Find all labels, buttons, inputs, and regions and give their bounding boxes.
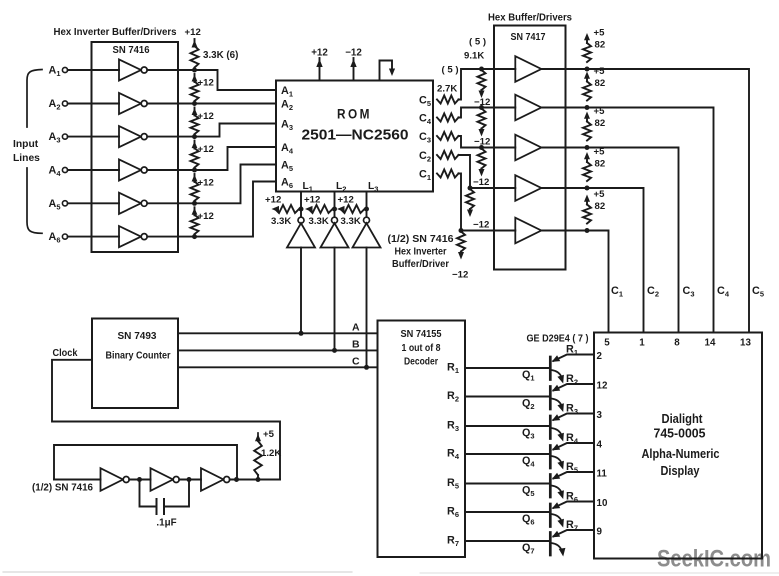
svg-text:B: B [352,338,360,350]
svg-text:C5: C5 [752,285,764,299]
inverter U3c [201,468,230,491]
svg-text:Q7: Q7 [522,542,535,556]
resistor 1.2K [254,433,262,480]
svg-text:9.1K: 9.1K [464,51,484,62]
svg-text:R7: R7 [566,519,578,533]
resistor 9.1K pull-down 5 [457,228,465,260]
wire base R6 from decoder [465,511,550,513]
wire buffer 2 output [541,107,587,109]
svg-text:C3: C3 [419,131,431,145]
inverter L3 (1/2 SN7416) [353,217,381,247]
wire base R1 from decoder [465,367,550,369]
svg-text:Binary Counter: Binary Counter [106,351,171,362]
svg-text:Lines: Lines [13,153,40,164]
label (5) 9.1K [464,37,486,62]
svg-text:R2: R2 [447,390,459,404]
wire C1 to buffer5 [459,174,516,231]
svg-text:A4: A4 [281,142,294,156]
wire inverter 1 output [147,69,194,71]
label .1uF [156,518,176,529]
label 1.2K [261,448,281,459]
input terminal A2 [49,98,68,112]
power -12 label 4 [473,220,489,231]
svg-text:13: 13 [740,338,751,349]
node chain 4 [192,168,197,173]
power +5 label 2 [594,66,606,89]
resistor 82 pull-up 5 [583,195,591,234]
transistor Q6 (GE D29E4) [550,502,594,528]
transistor Q2 (GE D29E4) [550,384,594,412]
node chain 3 [192,134,197,139]
wire clock input [52,360,280,480]
wire column C4 net [587,108,714,333]
wire A3 input [68,136,119,138]
wire inverter 6 output [147,236,194,238]
svg-text:12: 12 [597,380,608,391]
label 3.3K (6) [203,50,238,61]
svg-text:(1/2) SN 7416: (1/2) SN 7416 [32,483,94,494]
svg-text:+12: +12 [311,48,328,59]
input terminal A6 [49,231,68,245]
label (1/2) SN 7416 Hex Inverter Buffer/Driver [388,234,455,270]
inverter U1f (SN7416) [119,226,147,247]
svg-text:Q5: Q5 [522,485,535,499]
wire C4 to buffer2 [459,108,516,118]
wire node6 to ROM A6 [195,182,277,237]
pin label A2 [281,98,293,112]
wire oscillator input [54,479,101,481]
svg-text:4: 4 [597,439,603,450]
svg-text:Input: Input [13,139,39,150]
svg-text:Decoder: Decoder [404,357,438,368]
svg-text:3: 3 [597,410,603,421]
svg-text:+12: +12 [198,144,214,155]
svg-text:+12: +12 [198,178,214,189]
power +12 arrow 5 [192,174,214,189]
svg-text:A6: A6 [49,231,61,245]
power -12 label 1 [474,97,490,108]
wire column C2 net [587,188,644,333]
power +12 arrow 2 [192,74,214,89]
svg-text:A3: A3 [49,131,61,145]
svg-text:L1: L1 [303,181,313,194]
svg-text:R5: R5 [447,477,459,491]
svg-text:A6: A6 [281,176,293,190]
node L1 [299,207,304,212]
wire buffer 1 output [541,68,587,70]
svg-text:C2: C2 [419,150,431,164]
wire A4 input [68,169,119,171]
label Q1 [522,369,535,383]
label R4 emitter [566,432,579,446]
display pin 8 [674,338,680,349]
power -12 above ROM [345,48,362,81]
pin label R5 decoder [447,477,459,491]
svg-text:+12: +12 [304,195,320,206]
svg-text:SN 7417: SN 7417 [511,31,546,43]
svg-text:1: 1 [639,338,645,349]
resistor 9.1K pull-down 3 [478,145,486,177]
wire inverter L2 to decoder B [332,248,337,353]
svg-text:+12: +12 [265,195,281,206]
svg-text:C1: C1 [611,285,623,299]
svg-text:Hex Inverter: Hex Inverter [395,247,447,258]
svg-text:Q1: Q1 [522,369,535,383]
resistor 3.3K on L1 [272,205,300,213]
svg-text:C3: C3 [683,285,695,299]
svg-text:R1: R1 [447,362,459,376]
resistor 2.7K on C1 [437,170,459,178]
svg-text:( 5 ): ( 5 ) [469,37,486,48]
svg-text:82: 82 [595,118,606,129]
svg-text:+5: +5 [263,429,275,440]
wire stage1 out [129,477,150,482]
wire stage3 out [230,477,280,482]
wire buffer 4 output [541,187,587,189]
display box bottom edge over watermark [594,558,762,560]
svg-text:1 out of 8: 1 out of 8 [402,343,441,354]
resistor 82 pull-up 4 [583,152,591,191]
wire buffer 3 output [541,147,587,149]
net label C3 [683,285,695,299]
pin label L3 [368,181,378,194]
wire C5 to buffer1 [459,69,516,100]
wire decoder input B [178,349,378,351]
pin label A3 [281,118,293,132]
wire L3 from ROM [366,192,368,218]
node chain 5 [192,201,197,206]
inverter U1c (SN7416) [119,126,147,147]
label Q6 [522,513,535,527]
svg-text:+12: +12 [338,195,354,206]
transistor Q5 (GE D29E4) [550,472,594,499]
svg-text:R4: R4 [566,432,579,446]
IC box SN 7493 binary counter [92,319,178,409]
label Q5 [522,485,535,499]
power +5 label 4 [594,147,606,170]
svg-text:Alpha-Numeric: Alpha-Numeric [642,446,720,461]
wire A2 input [68,103,119,105]
resistor 3.3K pull-up 4 [191,148,199,167]
title Hex Inverter Buffer/Drivers [54,27,177,38]
svg-text:SN 7493: SN 7493 [118,331,157,342]
svg-text:82: 82 [595,40,606,51]
svg-text:Hex Inverter Buffer/Drivers: Hex Inverter Buffer/Drivers [54,27,177,38]
svg-text:SN 74155: SN 74155 [401,329,442,340]
wire base R7 from decoder [465,540,550,542]
wire C2 to buffer4 [459,155,516,188]
IC box SN 74155 decoder [378,321,466,558]
svg-text:A5: A5 [281,159,293,173]
inverter U1d (SN7416) [119,159,147,180]
svg-text:R5: R5 [566,461,578,475]
pin label C4 [419,112,432,126]
display pin 12 [597,380,608,391]
svg-text:−12: −12 [473,177,489,188]
svg-text:A3: A3 [281,118,293,132]
svg-text:Dialight: Dialight [662,411,704,426]
power +12 label L1 [265,195,281,206]
label R7 emitter [566,519,578,533]
power +5 label 5 [594,189,606,212]
svg-text:A1: A1 [281,85,293,99]
label Q7 [522,542,535,556]
power -12 label 2 [474,137,490,148]
display pin 9 [597,526,603,537]
svg-text:11: 11 [597,468,608,479]
wire A1 input [68,69,119,71]
buffer U2a (SN7417) [515,56,541,82]
wire node4 to ROM A4 [195,147,277,170]
resistor 2.7K on C4 [437,114,459,122]
svg-text:A2: A2 [281,98,293,112]
inverter U1e (SN7416) [119,193,147,214]
buffer U2c (SN7417) [515,135,541,161]
power +12 top of chain [185,27,201,48]
label Q2 [522,398,535,412]
power -12 label 5 [452,270,468,281]
resistor 3.3K pull-up 2 [191,82,199,102]
svg-text:3.3K (6): 3.3K (6) [203,50,238,61]
transistor Q3 (GE D29E4) [550,414,594,442]
svg-text:Q4: Q4 [522,455,535,469]
svg-text:+12: +12 [198,111,214,122]
input lines brace [27,70,42,234]
label 3.3K L1 [271,216,291,227]
faint scan artifact line [3,571,352,573]
wire column C1 net [587,231,609,333]
wire stage2 out [179,477,201,482]
pin label C1 [419,168,431,182]
pin label R2 decoder [447,390,459,404]
svg-text:3.3K: 3.3K [341,216,361,227]
wire inverter 4 output [147,169,194,171]
label 3.3K L3 [341,216,361,227]
input terminal A1 [49,65,68,79]
transistor Q7 (GE D29E4) [550,530,594,557]
svg-text:9: 9 [597,526,603,537]
svg-text:A5: A5 [49,198,61,212]
wire buffer 5 output [541,230,587,232]
node L2 [332,207,337,212]
svg-text:Display: Display [661,463,701,478]
svg-text:1.2K: 1.2K [261,448,281,459]
wire C3 to buffer3 [459,136,516,148]
wire node1 to ROM A1 [195,70,277,90]
svg-text:Q6: Q6 [522,513,535,527]
svg-text:Clock: Clock [53,348,78,359]
svg-text:10: 10 [597,498,608,509]
svg-text:.1μF: .1μF [156,518,176,529]
power +5 label 1 [594,28,606,51]
buffer U2b (SN7417) [515,95,541,121]
svg-text:A1: A1 [49,65,61,79]
power +5 oscillator [263,429,275,440]
svg-text:−12: −12 [452,270,468,281]
svg-text:L3: L3 [368,181,378,194]
pin label L1 [303,181,313,194]
wire base R2 from decoder [465,396,550,398]
svg-text:2: 2 [597,351,603,362]
net label C4 [717,285,730,299]
resistor 2.7K on C2 [437,151,459,159]
IC box SN 7416 [92,42,179,252]
power +12 arrow 3 [192,108,214,123]
wire A5 input [68,202,119,204]
wire column C5 net [587,69,749,333]
label A [352,321,360,333]
wire L2 from ROM [334,192,336,218]
svg-text:R2: R2 [566,373,578,387]
svg-text:14: 14 [705,338,716,349]
svg-text:L2: L2 [336,181,346,194]
pin label A1 [281,85,293,99]
pin label L2 [336,181,346,194]
svg-text:R4: R4 [447,448,460,462]
resistor 2.7K on C3 [437,132,459,140]
svg-text:(1/2) SN 7416: (1/2) SN 7416 [388,234,455,245]
svg-text:SN 7416: SN 7416 [113,44,150,56]
power +5 label 3 [594,106,606,129]
wire node5 to ROM A5 [195,165,277,204]
pin label C5 [419,94,431,108]
power +12 arrow 6 [192,207,214,222]
resistor 3.3K pull-up 6 [191,215,199,234]
net label C5 [752,285,764,299]
svg-text:A: A [352,321,360,333]
display pin 3 [597,410,603,421]
svg-text:Q3: Q3 [522,427,535,441]
svg-text:Hex Buffer/Drivers: Hex Buffer/Drivers [488,13,573,24]
display pin 2 [597,351,603,362]
resistor 82 pull-up 3 [583,112,591,151]
buffer U2e (SN7417) [515,218,541,244]
svg-text:Buffer/Driver: Buffer/Driver [392,259,449,270]
wire inverter L3 to decoder C [364,248,369,370]
node L3 [364,207,369,212]
IC box SN 7417 [494,26,566,270]
resistor 9.1K pull-down 2 [478,105,486,137]
svg-text:+5: +5 [594,28,606,39]
svg-text:C1: C1 [419,168,431,182]
inverter U1b (SN7416) [119,93,147,114]
resistor 3.3K pull-up 1 [191,46,199,68]
label C [352,355,360,367]
wire node2 to ROM A2 [195,103,277,105]
resistor 3.3K pull-up 3 [191,115,199,134]
wire base R3 from decoder [465,425,550,427]
label R2 emitter [566,373,578,387]
wire column C3 net [587,148,679,333]
power +12 above ROM [311,48,328,81]
display pin 10 [597,498,608,509]
title Hex Buffer/Drivers [488,13,573,24]
svg-text:C4: C4 [419,112,432,126]
svg-text:C2: C2 [647,285,659,299]
power +12 label L3 [338,195,354,206]
net label C2 [647,285,659,299]
resistor 3.3K pull-up 5 [191,182,199,201]
IC Dialight 745-0005 display [594,333,762,559]
pin label R1 decoder [447,362,459,376]
wire decoder input C [178,366,378,368]
svg-text:C: C [352,355,360,367]
svg-text:Q2: Q2 [522,398,535,412]
pin label A6 [281,176,293,190]
capacitor .1uF [140,480,190,515]
inverter U3b [151,468,180,491]
inverter L2 (1/2 SN7416) [321,217,349,247]
label R1 emitter [566,344,578,358]
node chain 2 [192,101,197,106]
label Q4 [522,455,535,469]
svg-text:3.3K: 3.3K [309,216,329,227]
svg-text:R6: R6 [566,491,578,505]
svg-text:+12: +12 [185,27,201,38]
label R5 emitter [566,461,578,475]
pin label R3 decoder [447,420,459,434]
resistor 82 pull-up 2 [583,72,591,111]
wire inverter L1 to decoder A [299,248,304,336]
resistor 9.1K pull-down 1 [478,67,486,99]
svg-text:R7: R7 [447,535,459,549]
svg-text:82: 82 [595,201,606,212]
buffer U2d (SN7417) [515,175,541,201]
svg-text:5: 5 [604,338,610,349]
inverter U1a (SN7416) [119,59,147,80]
display pin 5 [604,338,610,349]
label (5) 2.7K [437,65,459,95]
input terminal A5 [49,198,68,212]
power +12 label L2 [304,195,320,206]
wire A6 input [68,236,119,238]
transistor Q4 (GE D29E4) [550,443,594,470]
svg-text:R6: R6 [447,506,459,520]
wire oscillator feedback [54,445,237,480]
svg-text:82: 82 [595,78,606,89]
power +12 arrow 4 [192,141,214,156]
input terminal A3 [49,131,68,145]
pin label C3 [419,131,431,145]
svg-text:A2: A2 [49,98,61,112]
display pin 13 [740,338,751,349]
net label C1 [611,285,623,299]
svg-text:82: 82 [595,159,606,170]
pin label A4 [281,142,294,156]
display pin 11 [597,468,608,479]
svg-text:+5: +5 [594,66,606,77]
svg-text:C4: C4 [717,285,730,299]
power -12 label 3 [473,177,489,188]
svg-text:( 5 ): ( 5 ) [442,65,459,76]
label (1/2) SN 7416 oscillator [32,483,94,494]
svg-text:A4: A4 [49,165,62,179]
wire inverter 5 output [147,202,194,204]
wire inverter 2 output [147,103,194,105]
svg-text:8: 8 [674,338,680,349]
resistor 3.3K on L3 [337,205,365,213]
svg-text:−12: −12 [473,220,489,231]
resistor 82 pull-up 1 [583,33,591,72]
IC ROM 2501-NC2560 [276,81,433,192]
label 3.3K L2 [309,216,329,227]
svg-text:−12: −12 [345,48,362,59]
pin label R7 decoder [447,535,459,549]
resistor 2.7K on C5 [437,96,459,104]
inverter L1 (1/2 SN7416) [287,217,315,247]
svg-text:3.3K: 3.3K [271,216,291,227]
display pin 4 [597,439,603,450]
